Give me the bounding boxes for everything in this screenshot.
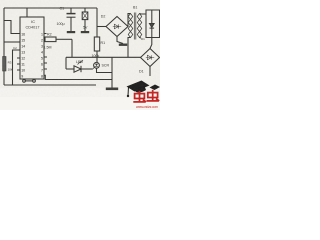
- svg-text:www.cndzz.com: www.cndzz.com: [136, 105, 158, 109]
